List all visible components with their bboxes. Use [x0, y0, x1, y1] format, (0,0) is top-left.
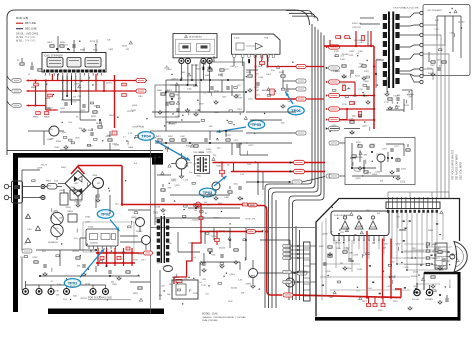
- svg-text:Q512: Q512: [413, 272, 419, 274]
- svg-text:R908: R908: [336, 248, 341, 250]
- svg-text:R762: R762: [85, 216, 91, 218]
- svg-text:T961: T961: [237, 109, 243, 111]
- CRT picture tube funnel: [450, 242, 467, 273]
- svg-text:TP01: TP01: [68, 281, 78, 286]
- svg-text:R218: R218: [90, 41, 96, 43]
- extra gray bus wires mid-top: [152, 56, 296, 195]
- svg-text:33K: 33K: [255, 90, 259, 92]
- svg-text:ZD226: ZD226: [436, 253, 443, 255]
- warning triangle 1: [26, 214, 31, 219]
- svg-text:12K: 12K: [184, 279, 188, 281]
- svg-text:D311: D311: [214, 91, 220, 93]
- svg-text:Q601: Q601: [352, 95, 358, 97]
- test point TP01: [64, 249, 104, 288]
- RGB amplifier box: [331, 211, 389, 241]
- svg-text:D436: D436: [428, 230, 434, 232]
- test point TP06: [286, 92, 305, 115]
- isolation barrier thick bar top: [13, 153, 163, 158]
- svg-text:R334: R334: [56, 141, 62, 143]
- red wire H-out lower: [231, 163, 325, 174]
- flyback secondary windings: [395, 14, 399, 84]
- grommet link wire: [26, 278, 106, 285]
- svg-text:C-01: C-01: [400, 181, 406, 184]
- svg-text:T157: T157: [359, 63, 365, 65]
- warning triangle 3: [26, 238, 31, 242]
- svg-text:Q415: Q415: [249, 124, 255, 126]
- opto coupler box: [69, 187, 82, 200]
- red vertical links left rails: [34, 74, 114, 128]
- IC U401 box: [173, 34, 217, 58]
- section border vertical x150: [150, 131, 152, 313]
- secondary diodes row: [96, 265, 130, 280]
- red pill B+: [248, 203, 257, 207]
- svg-text:47K: 47K: [168, 188, 172, 190]
- svg-text:T801: T801: [153, 213, 159, 215]
- vertical note text near funnel: [442, 256, 448, 270]
- legend text block: [16, 17, 39, 43]
- svg-text:D643: D643: [193, 86, 199, 88]
- svg-text:Q557: Q557: [362, 126, 368, 128]
- IC U801 box: [42, 53, 106, 74]
- warning triangle 2: [36, 226, 41, 230]
- bridge rectifier D801: [58, 167, 97, 207]
- sub-circuit box C-01: [345, 138, 415, 185]
- svg-text:IC402: IC402: [234, 38, 240, 40]
- svg-text:ZD245: ZD245: [219, 248, 226, 250]
- red wires on CRT board: [366, 231, 401, 307]
- relay box K501: [172, 277, 198, 299]
- svg-text:D803: D803: [88, 130, 94, 132]
- svg-text:2.2K: 2.2K: [349, 119, 354, 121]
- svg-text:D475: D475: [171, 180, 177, 182]
- svg-text:R922: R922: [378, 310, 383, 312]
- svg-text:D478: D478: [188, 243, 194, 245]
- extra wires bottom mid: [178, 228, 290, 276]
- svg-text:47K: 47K: [435, 20, 439, 22]
- resistor R801 red: [31, 83, 38, 89]
- svg-text:Q708: Q708: [390, 277, 396, 279]
- svg-text:KSC: KSC: [359, 42, 364, 44]
- red wire H-out upper: [213, 160, 326, 177]
- vertical connector strip CN901: [304, 242, 317, 301]
- svg-text:C807: C807: [47, 42, 53, 44]
- svg-text:T213: T213: [211, 236, 217, 238]
- extra wires flyback area: [360, 18, 412, 112]
- svg-text:T738: T738: [211, 255, 217, 257]
- mid-top gray wiring: [165, 62, 244, 131]
- red resistor R512 on B+: [243, 203, 248, 206]
- svg-text:Q703: Q703: [376, 154, 381, 156]
- svg-text:C705 103: C705 103: [352, 27, 362, 29]
- svg-text:2.2K: 2.2K: [128, 133, 133, 135]
- svg-text:KSC: KSC: [41, 188, 46, 190]
- svg-text:ZD177: ZD177: [41, 164, 48, 166]
- svg-text:ZD675: ZD675: [106, 82, 113, 84]
- flyback primary windings: [383, 14, 387, 86]
- svg-text:R905: R905: [319, 246, 324, 248]
- red resistor R709: [350, 102, 355, 105]
- IC U401 pin terminals: [179, 58, 212, 70]
- svg-text:2.2K: 2.2K: [434, 29, 439, 31]
- red stub end component: [112, 131, 117, 135]
- svg-text:V-CC H2: V-CC H2: [446, 261, 448, 270]
- red resistor R705: [361, 36, 364, 41]
- svg-text:R107: R107: [414, 286, 420, 288]
- control sub-box outline PSU: [83, 222, 134, 252]
- svg-text:Q107: Q107: [112, 144, 118, 146]
- resistor R805 red: [122, 83, 127, 86]
- svg-text:T472: T472: [226, 135, 232, 137]
- svg-text:R1: R1: [17, 60, 19, 62]
- tiny part marks speckle: [24, 10, 457, 301]
- sub-circuit box vertical osc: [200, 62, 244, 112]
- wires above neck connector: [388, 192, 449, 198]
- svg-text:Q324: Q324: [235, 95, 241, 97]
- fuse F801: [45, 181, 62, 190]
- svg-text:Q789: Q789: [355, 178, 361, 180]
- capacitor C810: [60, 103, 68, 110]
- red resistor R405: [270, 89, 275, 95]
- svg-text:1N4148: 1N4148: [248, 205, 256, 207]
- section divider wire y227: [151, 227, 316, 229]
- mid column parts: [246, 70, 289, 108]
- parts cluster left-mid: [64, 119, 112, 149]
- svg-text:C179: C179: [48, 107, 54, 109]
- svg-text:ZD441: ZD441: [231, 288, 238, 290]
- board small squares: [322, 218, 454, 295]
- parts above IC U801: [47, 42, 76, 50]
- svg-text:12K: 12K: [107, 39, 111, 41]
- SMPS transformer T801: [153, 213, 169, 264]
- switch transistor Q802: [131, 217, 145, 232]
- service note text underlined: [88, 297, 131, 300]
- left section mixed wires: [28, 120, 120, 150]
- wires below U801: [60, 76, 96, 121]
- svg-text:T636: T636: [93, 50, 99, 52]
- svg-text:H3 1K: H3 1K: [432, 258, 438, 260]
- svg-text:Q233: Q233: [187, 163, 193, 165]
- board label rows right: [404, 243, 438, 267]
- red stub down x201: [199, 203, 203, 231]
- svg-text:FBT FOCUS WIRE WH/TGT: FBT FOCUS WIRE WH/TGT: [452, 149, 455, 180]
- svg-text:CHASSIS : CN21FA (S/N 0801A~: CHASSIS : CN21FA (S/N 0801A~ ) CW21A8: [202, 316, 246, 319]
- flyback transformer T702 core: [388, 12, 394, 89]
- focus grommet terminal: [412, 285, 420, 301]
- svg-text:R121: R121: [70, 286, 76, 288]
- red resistor R455: [220, 170, 225, 173]
- svg-text:T997: T997: [430, 65, 436, 67]
- svg-text:MAIN (1/B): MAIN (1/B): [16, 17, 29, 20]
- resistor R804 red: [44, 112, 50, 119]
- svg-text:R801: R801: [31, 87, 37, 89]
- model info text block: [202, 313, 246, 323]
- svg-text:F801: F801: [46, 181, 52, 183]
- resistor R815: [91, 111, 97, 118]
- svg-text:CRT PCB ASSY: CRT PCB ASSY: [427, 9, 443, 12]
- svg-text:SCREEN: SCREEN: [425, 299, 434, 301]
- red wire B+ from bridge: [71, 166, 257, 206]
- svg-text:IC901 RGB AMP: IC901 RGB AMP: [334, 214, 351, 217]
- harness pill connectors column: [283, 245, 309, 284]
- red junction marks flyback feed: [340, 65, 376, 121]
- flyback label: [393, 7, 419, 10]
- svg-text:ZD349: ZD349: [356, 157, 363, 159]
- test point TP05: [217, 120, 265, 133]
- test point TP02: [97, 210, 119, 231]
- svg-text:R815: R815: [91, 116, 97, 118]
- board misc parts: [319, 246, 446, 288]
- section divider wire y131: [151, 130, 244, 132]
- svg-text:Q758: Q758: [155, 207, 161, 209]
- red branch to right rails: [113, 79, 147, 94]
- red output cluster rails: [96, 247, 153, 266]
- transistor Q801: [44, 126, 64, 141]
- left pill connector PSU: [20, 249, 32, 259]
- svg-text:2.2K: 2.2K: [85, 222, 90, 224]
- red resistor R706: [342, 86, 345, 91]
- posistor: [67, 211, 77, 222]
- svg-text:TP02: TP02: [101, 212, 111, 217]
- svg-text:C703: C703: [370, 144, 376, 146]
- svg-text:C799: C799: [195, 110, 201, 112]
- svg-text:W S/L :: W S/L :: [16, 40, 24, 43]
- transistor Q803: [142, 236, 151, 251]
- component value labels speckle: [24, 20, 465, 303]
- svg-text:DA (DEGAUSS): DA (DEGAUSS): [189, 36, 202, 39]
- svg-text:KSC: KSC: [196, 69, 201, 71]
- svg-text:C969: C969: [266, 74, 272, 76]
- parts row under U401: [167, 90, 198, 118]
- wire harness bundle: [265, 11, 324, 309]
- main filter capacitor C806: [92, 175, 104, 202]
- svg-text:IC801 STR-F6654: IC801 STR-F6654: [44, 55, 63, 57]
- svg-text:R749: R749: [246, 219, 252, 221]
- svg-text:T946: T946: [54, 147, 60, 149]
- flyback terminals: [385, 11, 423, 96]
- red flyback feed cluster: [324, 31, 375, 129]
- svg-text:Q723: Q723: [162, 266, 168, 268]
- line filter cap: [59, 189, 68, 205]
- parts in sub-box: [205, 69, 238, 104]
- svg-text:DEG LINE: DEG LINE: [25, 28, 37, 31]
- svg-text:D327: D327: [249, 145, 255, 147]
- svg-text:ZD862: ZD862: [192, 65, 199, 67]
- svg-text:R523: R523: [210, 231, 216, 233]
- board bottom small parts: [408, 294, 449, 310]
- svg-text:ZD670: ZD670: [219, 231, 226, 233]
- svg-text:47K: 47K: [358, 67, 362, 69]
- svg-text:ZD289: ZD289: [399, 230, 406, 232]
- border stubs to connectors: [7, 76, 11, 106]
- PSU misc parts: [22, 257, 150, 295]
- svg-text:33K: 33K: [364, 155, 368, 157]
- SMPS control IC U802 box: [86, 227, 118, 250]
- red rail row2 y=91: [27, 90, 115, 92]
- svg-text:R816: R816: [96, 123, 102, 125]
- gray mid wire with connector: [246, 174, 336, 184]
- svg-text:DEG 6.3V: DEG 6.3V: [450, 279, 452, 288]
- svg-text:C497: C497: [47, 186, 53, 188]
- svg-text:D801: D801: [61, 167, 67, 169]
- svg-text:IC801: IC801: [88, 227, 94, 229]
- svg-text:C720: C720: [394, 146, 399, 148]
- parts below legend: [17, 58, 42, 76]
- svg-text:C640: C640: [355, 171, 361, 173]
- extra wires PSU: [22, 170, 150, 277]
- svg-text:T191: T191: [427, 68, 433, 70]
- svg-text:2.2K: 2.2K: [240, 174, 245, 176]
- section border bottom of top-left: [7, 150, 163, 152]
- svg-text:Q198: Q198: [322, 233, 328, 235]
- svg-text:C201: C201: [207, 152, 213, 154]
- svg-text:D847: D847: [396, 244, 402, 246]
- svg-text:C591: C591: [407, 95, 413, 97]
- svg-text:Q995: Q995: [174, 185, 180, 187]
- board bottom thick bar: [315, 317, 460, 321]
- svg-text:KSC: KSC: [197, 176, 202, 178]
- svg-text:R921: R921: [362, 301, 367, 303]
- wires flyback to right: [423, 25, 449, 198]
- svg-text:Q565: Q565: [74, 191, 80, 193]
- svg-text:R494: R494: [80, 50, 86, 52]
- test point TP03: [199, 176, 226, 197]
- svg-text:R720: R720: [356, 142, 361, 144]
- svg-text:D654: D654: [66, 207, 72, 209]
- svg-text:R804: R804: [44, 117, 50, 119]
- flyback bottom parts: [384, 98, 401, 110]
- svg-text:R400: R400: [128, 147, 134, 149]
- svg-text:TP# GND: TP# GND: [25, 40, 36, 43]
- gray parts near flyback cluster: [330, 65, 370, 134]
- svg-text:T223: T223: [348, 55, 354, 57]
- ellipse component: [164, 266, 173, 272]
- isolation barrier notch: [152, 158, 163, 165]
- svg-text:2.2K: 2.2K: [168, 243, 173, 245]
- funnel ground strap thick: [424, 273, 458, 291]
- red resistor R702: [336, 36, 341, 39]
- svg-text:T702 FLYBACK 154-177B: T702 FLYBACK 154-177B: [393, 7, 419, 10]
- red wire U402 output: [254, 55, 324, 101]
- C-01 extra parts: [350, 144, 410, 180]
- svg-text:D894: D894: [246, 284, 252, 286]
- svg-text:D539: D539: [122, 46, 128, 48]
- red diode component on B+: [196, 202, 201, 207]
- RGB box pin stub wires: [334, 239, 384, 259]
- transformer T402 driver: [193, 152, 210, 174]
- svg-text:ZD969: ZD969: [342, 54, 349, 56]
- pill connectors mid column: [246, 79, 306, 135]
- svg-text:C946: C946: [174, 95, 180, 97]
- svg-text:Q943: Q943: [166, 69, 172, 71]
- svg-text:PC801: PC801: [69, 187, 76, 189]
- svg-text:DEGAUSS: DEGAUSS: [48, 241, 58, 244]
- svg-text:C490: C490: [353, 255, 359, 257]
- CRT socket box: [435, 243, 450, 269]
- red rail row3 y=105.5: [27, 105, 46, 107]
- svg-text:T198: T198: [54, 290, 60, 292]
- svg-text:MODEL : 21A8: MODEL : 21A8: [202, 313, 218, 316]
- svg-text:ZD393: ZD393: [72, 251, 79, 253]
- AC wires into PSU: [23, 185, 46, 200]
- resistor R803 red: [33, 112, 40, 119]
- top-right box CRT aux: [423, 5, 470, 77]
- svg-text:C821: C821: [109, 49, 115, 51]
- test point TP04: [138, 132, 190, 161]
- resistor R802 red: [45, 94, 52, 100]
- svg-text:R530: R530: [135, 218, 141, 220]
- svg-text:ZD660: ZD660: [458, 22, 465, 24]
- extra wires H section: [155, 130, 292, 225]
- svg-text:12K: 12K: [241, 293, 245, 295]
- extra wires CRT board: [320, 213, 448, 300]
- svg-text:R803: R803: [33, 117, 39, 119]
- svg-text:Q969: Q969: [132, 105, 138, 107]
- svg-text:ZD281: ZD281: [80, 298, 87, 300]
- svg-text:12K: 12K: [397, 95, 401, 97]
- svg-text:ZD746: ZD746: [127, 111, 134, 113]
- svg-text:RL501: RL501: [172, 277, 179, 279]
- degauss coil L801: [48, 212, 63, 244]
- red rail row1 y=80.5: [27, 80, 115, 82]
- neck board connector strip: [386, 197, 440, 213]
- screen grommet terminal: [425, 285, 434, 301]
- svg-text:2.2K: 2.2K: [48, 129, 53, 131]
- svg-text:Q421: Q421: [364, 96, 370, 98]
- svg-text:D364: D364: [107, 135, 113, 137]
- svg-text:R802: R802: [45, 98, 51, 100]
- svg-text:C552: C552: [137, 253, 143, 255]
- svg-text:TH801: TH801: [67, 211, 74, 213]
- svg-text:2.2K: 2.2K: [238, 280, 243, 282]
- svg-text:C810: C810: [60, 108, 66, 110]
- svg-text:D524: D524: [357, 269, 363, 271]
- svg-text:C114: C114: [404, 267, 410, 269]
- svg-text:Q479: Q479: [37, 167, 43, 169]
- chassis grommet terminals: [23, 285, 109, 295]
- svg-text:2.2K: 2.2K: [152, 138, 157, 140]
- svg-text:D719: D719: [133, 260, 139, 262]
- svg-text:21A8 (CN21FA): 21A8 (CN21FA): [202, 319, 218, 322]
- svg-text:2.2K: 2.2K: [38, 291, 43, 293]
- svg-text:47K: 47K: [252, 218, 256, 220]
- svg-text:R161: R161: [216, 166, 222, 168]
- svg-text:Q452: Q452: [331, 125, 337, 127]
- svg-text:47K: 47K: [340, 232, 344, 234]
- svg-text:D783: D783: [193, 293, 199, 295]
- svg-text:C812: C812: [80, 110, 86, 112]
- svg-text:FBT LINE: FBT LINE: [25, 22, 36, 25]
- flyback cluster labels: [334, 23, 381, 106]
- svg-text:47K: 47K: [78, 96, 82, 98]
- svg-text:12K: 12K: [56, 295, 60, 297]
- svg-text:C291: C291: [382, 148, 388, 150]
- IC U801 pin leads: [46, 73, 102, 76]
- junction dots speckle: [40, 8, 463, 305]
- right pills column x334: [326, 45, 340, 131]
- svg-text:H1 1K: H1 1K: [432, 244, 438, 246]
- svg-text:C903: C903: [226, 231, 232, 233]
- svg-text:C555: C555: [401, 169, 407, 171]
- red resistor R562: [215, 238, 220, 241]
- svg-text:R443: R443: [214, 112, 220, 114]
- svg-text:47K: 47K: [137, 126, 141, 128]
- svg-text:D187: D187: [33, 257, 39, 259]
- svg-text:C924: C924: [358, 226, 364, 228]
- left sub-box H section: [155, 85, 179, 117]
- resistor R806 red: [122, 94, 127, 97]
- board internal wiring grid: [330, 213, 452, 285]
- svg-text:TP04: TP04: [141, 134, 151, 139]
